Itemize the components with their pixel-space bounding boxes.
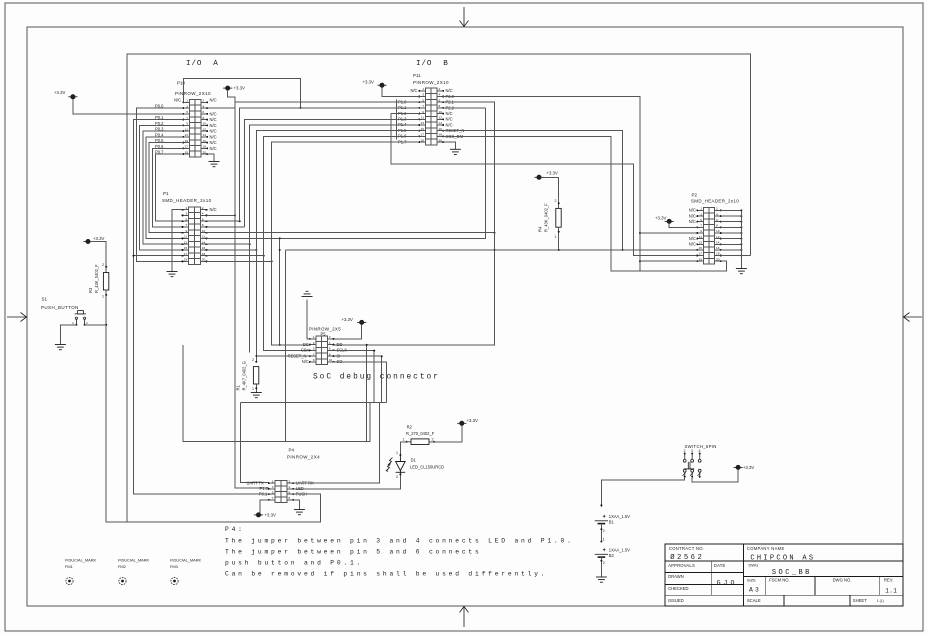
svg-text:3: 3 <box>272 485 274 489</box>
switch S1 symbol <box>75 311 86 325</box>
svg-text:7: 7 <box>186 116 188 120</box>
wire P10 pin4 to +3.3V <box>207 90 235 108</box>
wire P4 pin7 to +3.3V <box>260 500 269 515</box>
resistor R4 body <box>556 208 561 227</box>
wire net SOC_DM from P11 to P2 pin20 <box>443 136 726 271</box>
right center tick arrow <box>904 313 923 322</box>
svg-text:8: 8 <box>716 224 718 228</box>
svg-text:18: 18 <box>716 252 720 256</box>
svg-text:4: 4 <box>716 212 718 216</box>
svg-text:The jumper between pin 5 and 6: The jumper between pin 5 and 6 connects <box>225 548 482 555</box>
svg-text:12: 12 <box>439 116 443 120</box>
wire net P1.4 from P11 down to debug area <box>250 125 420 353</box>
svg-text:SHEET: SHEET <box>853 598 867 603</box>
resistor R1 body <box>253 367 258 384</box>
wire P2 pin18 to section box <box>721 255 751 257</box>
power +3.3V at R4 <box>534 175 543 179</box>
svg-text:P1.0: P1.0 <box>260 486 269 491</box>
svg-text:3: 3 <box>422 93 424 97</box>
svg-text:12: 12 <box>716 235 720 239</box>
svg-text:1.1: 1.1 <box>885 588 897 595</box>
connector P4 pin stubs <box>268 482 294 501</box>
wire debug lower horizontal to P4 pin1 <box>240 401 386 403</box>
svg-text:GJO: GJO <box>717 580 738 587</box>
wire R1 pin1 to ground <box>255 384 257 393</box>
svg-text:ISSUED: ISSUED <box>668 598 684 603</box>
wire net P0.2 from P10 to P1 <box>140 125 184 249</box>
svg-text:10: 10 <box>329 358 333 362</box>
wire net P0.1 from bus to P4 pin5 <box>133 256 268 495</box>
svg-text:2: 2 <box>603 529 605 533</box>
svg-text:B1: B1 <box>609 519 615 524</box>
wire battery B2 to ground <box>600 557 602 577</box>
fiducial mark FM2 symbol <box>119 577 126 584</box>
svg-text:R3: R3 <box>88 287 93 293</box>
svg-text:1: 1 <box>186 99 188 103</box>
svg-text:push button and P0.1.: push button and P0.1. <box>225 559 363 566</box>
wire net P2.1 from P11 down to debug DD <box>333 102 495 345</box>
svg-text:17: 17 <box>421 133 425 137</box>
svg-text:2: 2 <box>252 358 254 362</box>
svg-text:8: 8 <box>289 496 291 500</box>
wire R2 pin1 to D1 anode <box>400 442 406 455</box>
svg-text:N/C: N/C <box>174 97 181 102</box>
power +3.3V at R3 <box>83 239 92 243</box>
svg-text:2: 2 <box>684 449 686 453</box>
wire net P1.6 from P11 to debug CSn <box>264 136 420 350</box>
svg-text:18: 18 <box>203 145 207 149</box>
svg-text:1: 1 <box>700 207 702 211</box>
switch SW1 bottom pins <box>683 469 702 477</box>
svg-text:FIDUCIAL_MARK: FIDUCIAL_MARK <box>118 558 150 563</box>
svg-text:N/C: N/C <box>446 111 453 116</box>
wire branch to debug DC <box>279 238 281 345</box>
svg-text:P1: P1 <box>163 191 169 196</box>
svg-text:4: 4 <box>203 104 205 108</box>
svg-text:DC: DC <box>303 342 309 347</box>
svg-text:6: 6 <box>202 217 204 221</box>
wire P2 pin7 to +3.3V <box>669 224 697 228</box>
wire debug area vertical <box>366 345 368 442</box>
svg-text:CONTRACT NO.: CONTRACT NO. <box>669 546 704 551</box>
wire net P2.0 from P11 to P2 <box>443 97 640 272</box>
resistor R2 pins <box>406 441 408 443</box>
svg-text:SOC_BB: SOC_BB <box>772 569 812 577</box>
svg-text:3: 3 <box>700 212 702 216</box>
svg-text:N/C: N/C <box>210 117 217 122</box>
wire P2 pin20 down <box>721 261 727 271</box>
svg-text:12: 12 <box>203 127 207 131</box>
battery B2 symbol <box>595 548 608 557</box>
wire P1 pin8 to net P1.3 <box>207 226 245 228</box>
wire switch left pin to battery <box>601 477 684 507</box>
svg-text:10: 10 <box>203 122 207 126</box>
wire P5 pin1 to inverted ground <box>307 300 310 339</box>
svg-text:14: 14 <box>716 241 720 245</box>
wire net P1.7 from P11 to debug DC <box>272 142 420 345</box>
svg-text:N/C: N/C <box>689 213 696 218</box>
wire net P1.5 from P11 down to R1 <box>256 131 419 362</box>
svg-text:19: 19 <box>184 258 188 262</box>
svg-text:REV.: REV. <box>884 578 893 583</box>
power +3.3V at P2 pin7 <box>665 219 674 223</box>
resistor R2 body <box>411 439 429 445</box>
svg-text:R_4K7_0402_G: R_4K7_0402_G <box>242 361 247 390</box>
svg-text:1: 1 <box>272 479 274 483</box>
wire net P2.2 from P11 <box>443 107 485 109</box>
svg-text:1: 1 <box>555 235 557 239</box>
wire P1 pin16 to net P1.5 <box>207 249 257 251</box>
wire P10 pin1 upper route <box>183 78 300 108</box>
wire net P1.1 from P11 to P1 pin6 <box>240 108 420 221</box>
wire bus drop at debug box <box>284 250 286 442</box>
connector P1 pin stubs <box>182 209 208 263</box>
svg-text:1: 1 <box>603 538 605 542</box>
svg-text:N/C: N/C <box>210 97 217 102</box>
svg-text:5: 5 <box>185 217 187 221</box>
svg-text:20: 20 <box>439 138 443 142</box>
ground at P11 pin20 <box>443 142 455 149</box>
svg-text:+3.3V: +3.3V <box>234 86 245 91</box>
svg-text:+3.3V: +3.3V <box>342 317 353 322</box>
switch SW1 top pins <box>683 449 701 462</box>
svg-text:11: 11 <box>421 116 424 120</box>
svg-text:9: 9 <box>185 229 187 233</box>
svg-text:R_43K_0402_F: R_43K_0402_F <box>94 264 99 293</box>
svg-text:The jumper between pin 3 and 4: The jumper between pin 3 and 4 connects … <box>225 537 574 544</box>
svg-text:10: 10 <box>202 229 206 233</box>
svg-text:3: 3 <box>186 104 188 108</box>
svg-text:1XAA_1.5V: 1XAA_1.5V <box>609 547 630 552</box>
power +3.3V at P10 pin4 <box>223 86 232 90</box>
svg-text:DWG: DWG <box>749 562 759 567</box>
svg-text:+3.3V: +3.3V <box>265 512 276 517</box>
svg-text:9: 9 <box>422 110 424 114</box>
svg-text:+3.3V: +3.3V <box>93 236 104 241</box>
svg-text:17: 17 <box>699 252 703 256</box>
wire P4 pin6 PUSH to S1 <box>106 325 320 522</box>
svg-text:P11: P11 <box>413 73 421 78</box>
svg-text:5: 5 <box>313 347 315 351</box>
wire UART TX drop to P4 pin1 <box>240 402 269 482</box>
I/O section box outline <box>127 54 750 522</box>
svg-text:2: 2 <box>203 99 205 103</box>
svg-text:13: 13 <box>699 241 703 245</box>
wire net P0.5 from P10 to P1 <box>149 143 183 233</box>
svg-text:B2: B2 <box>609 553 615 558</box>
svg-text:2: 2 <box>396 475 398 479</box>
wire R4 pin2 to +3.3V <box>541 177 559 208</box>
wire R2 pin2 to +3.3V <box>429 425 462 441</box>
connector P5 body <box>316 336 327 365</box>
wire P1 pin18 to net P1.6 <box>207 255 264 257</box>
wire net P1.0 from P11 to P1 pin4 and P4 pin3 <box>235 102 419 488</box>
wire P1 pin4 to net P1.0 <box>207 214 236 216</box>
svg-text:N/C: N/C <box>410 88 417 93</box>
svg-text:14: 14 <box>439 121 443 125</box>
connector P10 body <box>190 100 202 158</box>
connector P1 pin numbers <box>184 206 206 262</box>
wire P4 pin4 LED to D1 <box>293 474 400 488</box>
top center tick arrow <box>460 7 469 27</box>
bottom center tick arrow <box>460 607 469 628</box>
connector P5 pin numbers <box>313 335 333 362</box>
connector P11 pin stubs <box>418 90 444 143</box>
svg-text:N/C: N/C <box>210 146 217 151</box>
svg-text:11: 11 <box>699 235 702 239</box>
svg-text:DWG NO.: DWG NO. <box>833 578 852 583</box>
power +3.3V at P5 pin2 <box>357 320 366 324</box>
svg-text:N/C: N/C <box>210 129 217 134</box>
wire net P1.3 from P11 to P1 pin8 <box>245 119 420 227</box>
wire net P0.6 from P10 to P1 <box>152 148 183 227</box>
wire P1 pin14 to net P1.4 <box>207 243 250 245</box>
svg-text:14: 14 <box>203 133 207 137</box>
wire debug SI to bus <box>333 356 382 402</box>
svg-text:5: 5 <box>272 490 274 494</box>
svg-text:2: 2 <box>432 438 434 442</box>
svg-text:FSCM NO.: FSCM NO. <box>769 578 789 583</box>
svg-text:19: 19 <box>185 150 189 154</box>
svg-text:Can be removed if pins shall b: Can be removed if pins shall be used dif… <box>225 570 547 577</box>
wire R4 pin1 to bus <box>558 227 560 250</box>
wire switch middle pin to +3.3V <box>692 470 738 482</box>
svg-text:SMD_HEADER_2x10: SMD_HEADER_2x10 <box>162 198 212 203</box>
svg-text:1: 1 <box>313 335 315 339</box>
svg-text:N/C: N/C <box>446 117 453 122</box>
svg-text:R_43K_0402_F: R_43K_0402_F <box>544 203 549 232</box>
P2 right pins to ground rail <box>721 209 742 211</box>
svg-text:R1: R1 <box>236 385 241 391</box>
svg-text:1XAA_1.5V: 1XAA_1.5V <box>609 514 630 519</box>
wire net P0.1 from P10 to P1 <box>133 120 183 256</box>
svg-text:1: 1 <box>185 206 187 210</box>
svg-text:N/C: N/C <box>210 123 217 128</box>
left center tick arrow <box>7 313 27 322</box>
svg-text:SIZE: SIZE <box>747 578 756 583</box>
svg-text:15: 15 <box>421 127 425 131</box>
svg-text:5: 5 <box>700 218 702 222</box>
svg-text:15: 15 <box>184 246 188 250</box>
wire P2 ground rail <box>740 210 742 268</box>
svg-text:+3.3V: +3.3V <box>54 90 65 95</box>
svg-text:20: 20 <box>716 257 720 261</box>
connector P2 body <box>704 208 715 264</box>
connector P10 pin numbers <box>185 99 207 155</box>
svg-text:12: 12 <box>202 235 206 239</box>
svg-text:A3: A3 <box>749 587 761 594</box>
wire net P1.2 from P11 to P2 pin17 <box>391 114 697 256</box>
svg-text:SoC debug connector: SoC debug connector <box>313 374 440 382</box>
svg-text:1: 1 <box>102 295 104 299</box>
wire net P0.4 from P10 to P1 <box>146 137 183 239</box>
svg-text:19: 19 <box>699 257 703 261</box>
svg-text:9: 9 <box>186 122 188 126</box>
svg-text:+3.3V: +3.3V <box>655 216 666 221</box>
svg-text:8: 8 <box>439 104 441 108</box>
svg-text:N/C: N/C <box>689 219 696 224</box>
svg-text:7: 7 <box>422 104 424 108</box>
svg-text:1: 1 <box>403 438 405 442</box>
svg-text:10: 10 <box>439 110 443 114</box>
svg-text:2: 2 <box>289 479 291 483</box>
svg-text:16: 16 <box>439 127 443 131</box>
wire P2 pin19 <box>640 260 697 262</box>
wire net P0.3 from P10 to P1 <box>143 131 184 244</box>
svg-text:2: 2 <box>329 335 331 339</box>
svg-text:UART TX: UART TX <box>247 480 265 485</box>
svg-text:FM3: FM3 <box>170 564 178 569</box>
svg-text:20: 20 <box>203 150 207 154</box>
fiducial mark FM3 symbol <box>171 577 178 584</box>
connector P4 pin numbers <box>272 479 291 500</box>
wire P1 pin20 to net P1.7 <box>207 260 272 262</box>
svg-text:R_270_0402_F: R_270_0402_F <box>406 431 435 436</box>
LED D1 light arrows <box>386 458 392 472</box>
svg-text:SMD_HEADER_2x10: SMD_HEADER_2x10 <box>691 199 739 204</box>
svg-text:I/O B: I/O B <box>416 60 449 68</box>
wire P1 pin12 to vertical bus P2.2 <box>207 108 486 239</box>
svg-text:SCALE: SCALE <box>747 598 761 603</box>
svg-text:N/C: N/C <box>689 236 696 241</box>
svg-text:N/C: N/C <box>302 359 309 364</box>
svg-text:7: 7 <box>700 224 702 228</box>
wire net P0.7 from P10 to P1 <box>156 154 184 221</box>
connector P5 pin stubs <box>309 338 335 363</box>
svg-text:6: 6 <box>716 218 718 222</box>
svg-text:I/O A: I/O A <box>186 60 219 68</box>
connector P11 body <box>426 88 438 145</box>
svg-text:11: 11 <box>184 235 187 239</box>
svg-text:3: 3 <box>313 341 315 345</box>
wire net P0.0 from P10 to P1 <box>137 108 184 261</box>
title block grid <box>665 544 903 606</box>
svg-text:15: 15 <box>699 246 703 250</box>
svg-text:5: 5 <box>422 98 424 102</box>
svg-text:13: 13 <box>185 133 189 137</box>
svg-text:N/C: N/C <box>689 242 696 247</box>
svg-text:N/C: N/C <box>446 88 453 93</box>
svg-text:+3.3V: +3.3V <box>363 80 374 85</box>
svg-text:2: 2 <box>102 263 104 267</box>
svg-text:6: 6 <box>439 98 441 102</box>
svg-text:S1: S1 <box>42 297 48 302</box>
svg-text:SWITCH_6PIN: SWITCH_6PIN <box>685 444 717 449</box>
svg-text:R2: R2 <box>407 424 413 429</box>
svg-text:9: 9 <box>700 229 702 233</box>
svg-text:1 (1): 1 (1) <box>877 599 884 603</box>
svg-text:FIDUCIAL_MARK: FIDUCIAL_MARK <box>65 558 97 563</box>
resistor R1 pin2 <box>255 361 257 363</box>
svg-text:N/C: N/C <box>446 122 453 127</box>
wire P11 pin3 to +3.3V <box>382 87 419 96</box>
svg-text:P4:: P4: <box>225 526 245 533</box>
svg-text:FM1: FM1 <box>65 564 73 569</box>
svg-text:16: 16 <box>202 246 206 250</box>
switch SW1 body bar <box>684 468 694 470</box>
wire P1 pin1 to ground <box>172 210 183 272</box>
wire P4 pin2 UART RX up <box>293 402 379 483</box>
svg-text:CHECKED: CHECKED <box>668 586 688 591</box>
svg-text:CSn: CSn <box>301 348 310 353</box>
svg-text:DD: DD <box>337 342 343 347</box>
svg-text:13: 13 <box>421 121 425 125</box>
svg-text:2: 2 <box>202 206 204 210</box>
power +3.3V at P11 pin3 <box>377 83 386 87</box>
wire R3 pin1 down to S1 and P4 <box>105 290 107 325</box>
svg-text:DATE: DATE <box>714 563 726 568</box>
connector P10 pin stubs <box>182 101 208 155</box>
svg-text:7: 7 <box>185 223 187 227</box>
svg-text:2: 2 <box>603 561 605 565</box>
wire +3.3V to R3 <box>90 242 106 273</box>
svg-text:N/C: N/C <box>210 134 217 139</box>
wire P1 pin6 to net P1.1 <box>207 220 240 222</box>
wire S1 left pin to ground <box>60 325 76 345</box>
connector P2 pin stubs <box>696 209 721 262</box>
svg-text:+3.3V: +3.3V <box>467 418 478 423</box>
svg-text:+3.3V: +3.3V <box>743 465 754 470</box>
svg-text:1: 1 <box>422 87 424 91</box>
wire P5 pin2 to +3.3V <box>333 325 362 339</box>
svg-text:16: 16 <box>203 139 207 143</box>
svg-text:N/C: N/C <box>210 207 217 212</box>
svg-text:4: 4 <box>699 449 701 453</box>
power +3.3V at P10 pin5 <box>68 95 77 99</box>
svg-text:20: 20 <box>202 258 206 262</box>
svg-text:8: 8 <box>329 352 331 356</box>
svg-text:1: 1 <box>252 387 254 391</box>
svg-text:2: 2 <box>555 199 557 203</box>
svg-text:4: 4 <box>439 93 441 97</box>
svg-text:17: 17 <box>185 145 189 149</box>
wire section line above P4 <box>183 345 370 442</box>
svg-text:P10: P10 <box>177 80 186 85</box>
svg-text:8: 8 <box>203 116 205 120</box>
wire P10 pin5 to +3.3V <box>73 99 183 114</box>
svg-text:17: 17 <box>184 252 188 256</box>
svg-text:19: 19 <box>421 138 425 142</box>
svg-text:2: 2 <box>716 207 718 211</box>
svg-text:7: 7 <box>313 352 315 356</box>
wire P2 pin9 to P2.0 net <box>640 232 697 234</box>
svg-text:Ø2562: Ø2562 <box>670 553 704 562</box>
connector P1 body <box>189 207 201 264</box>
svg-text:R4: R4 <box>538 226 543 232</box>
battery B1 symbol <box>595 515 608 524</box>
wire P4 pin8 to ground <box>293 500 299 510</box>
svg-text:18: 18 <box>202 252 206 256</box>
svg-text:LED_CL150URCD: LED_CL150URCD <box>410 464 444 469</box>
svg-text:7: 7 <box>272 496 274 500</box>
svg-text:3: 3 <box>185 212 187 216</box>
wire net RESET_N from P11 to bus <box>443 131 622 250</box>
wire S1 right pin to net <box>85 324 107 326</box>
wire battery B1 to B2 <box>600 524 602 542</box>
svg-text:14: 14 <box>202 240 206 244</box>
svg-text:6: 6 <box>289 490 291 494</box>
svg-text:6: 6 <box>329 347 331 351</box>
fiducial mark FM1 symbol <box>66 577 73 584</box>
svg-text:4: 4 <box>329 341 331 345</box>
svg-text:11: 11 <box>185 127 188 131</box>
svg-text:PINROW_2X4: PINROW_2X4 <box>287 454 320 459</box>
svg-text:FIDUCIAL_MARK: FIDUCIAL_MARK <box>170 558 202 563</box>
connector P2 pin numbers <box>699 207 720 262</box>
connector P4 body <box>275 481 287 503</box>
resistor R3 body <box>103 273 108 291</box>
svg-text:4: 4 <box>289 485 291 489</box>
